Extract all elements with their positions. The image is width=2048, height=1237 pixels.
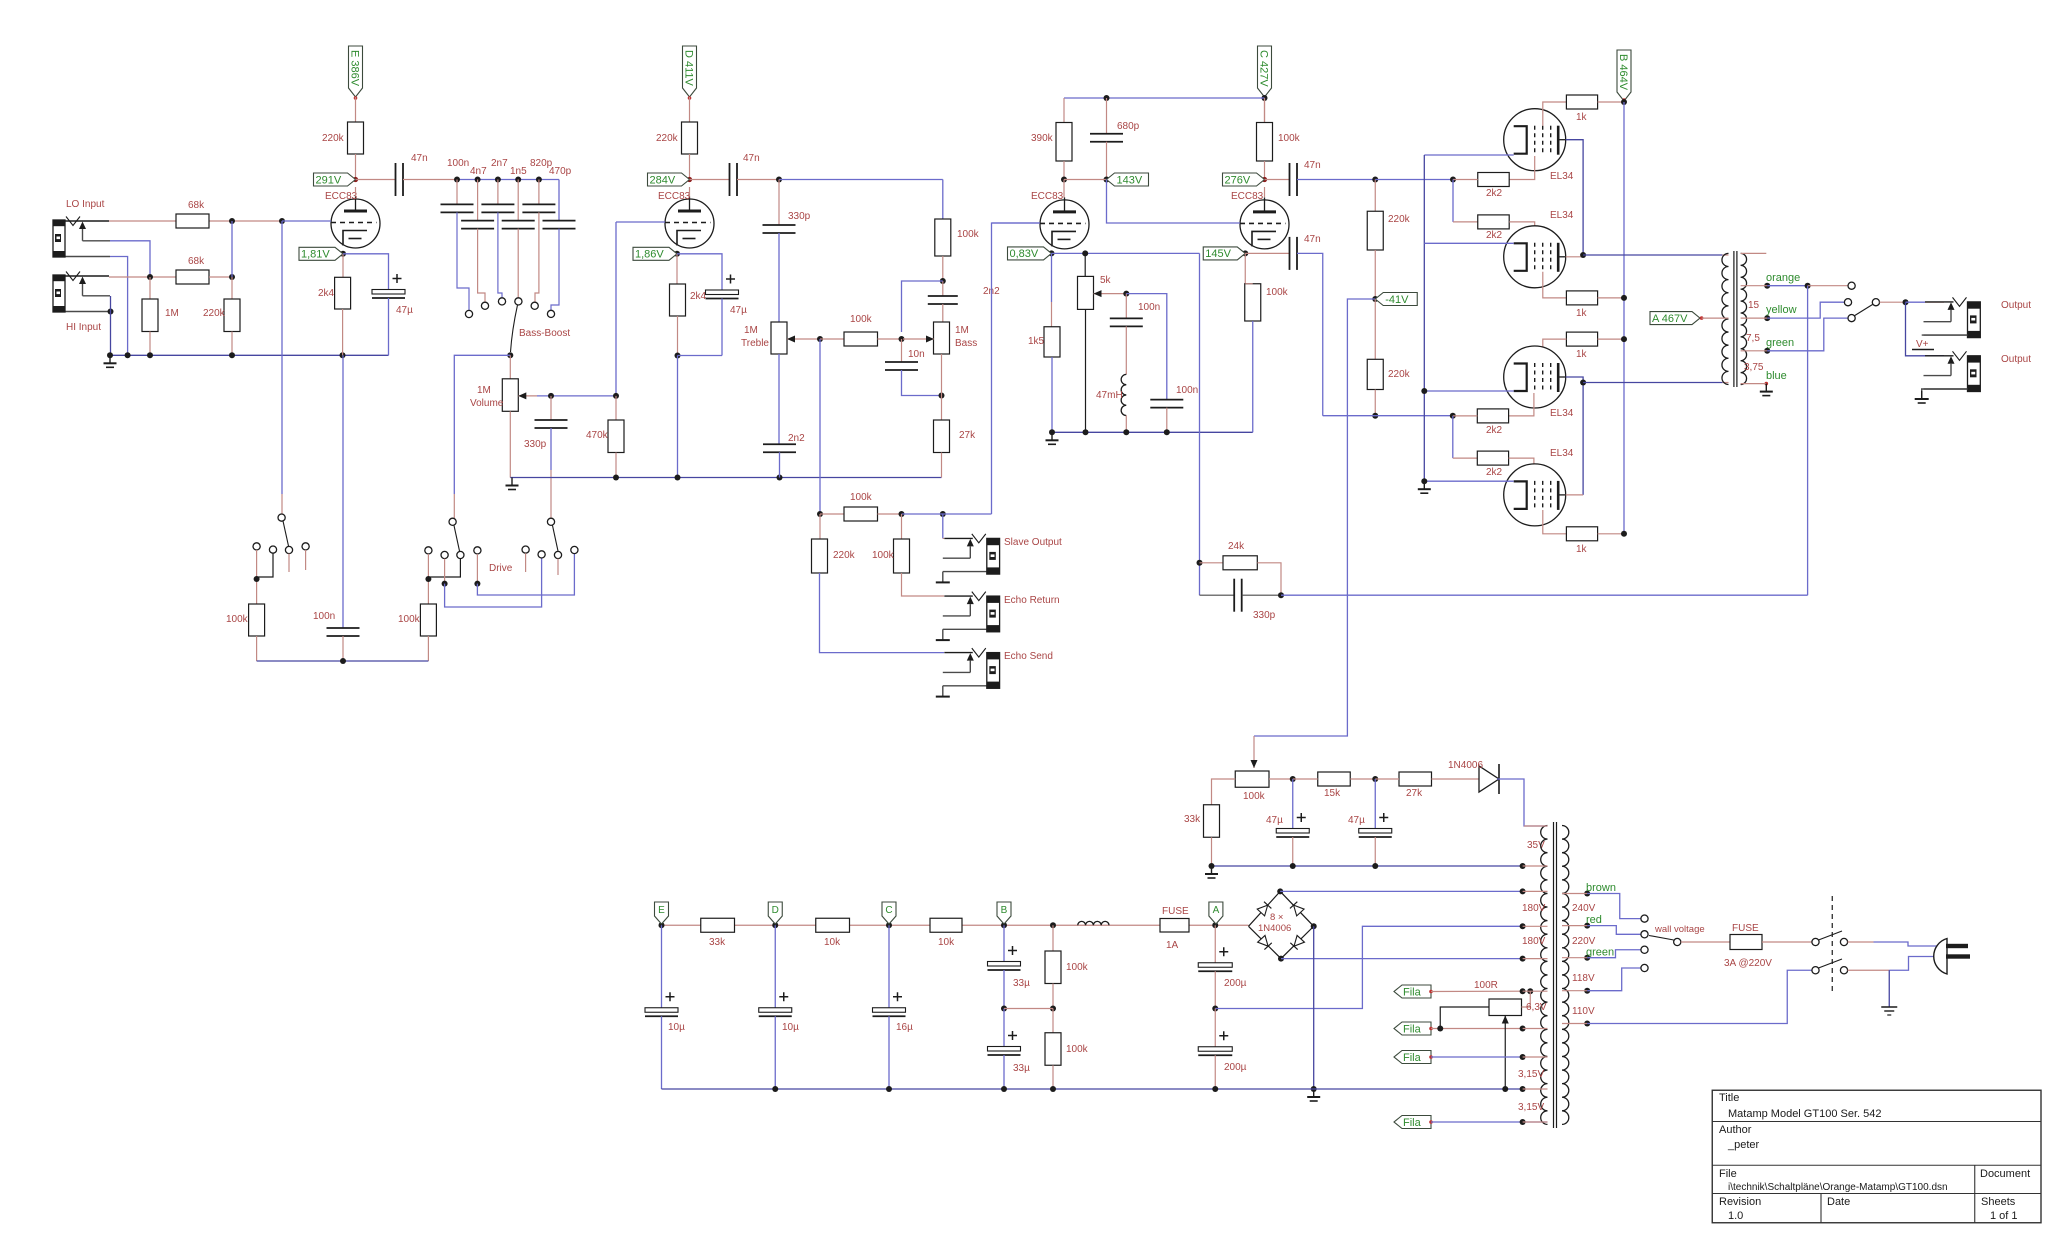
svg-text:68k: 68k [188, 256, 205, 267]
capacitor 330p feedback [1200, 594, 1235, 596]
svg-text:100k: 100k [226, 614, 249, 625]
svg-text:100k: 100k [1243, 791, 1266, 802]
svg-text:2k2: 2k2 [1486, 230, 1503, 241]
switch mains lower [1812, 967, 1819, 974]
svg-text:1n5: 1n5 [510, 166, 527, 177]
flag 143V [1107, 173, 1149, 186]
svg-text:C: C [885, 905, 892, 916]
resistor 33k supply [701, 918, 735, 932]
jack LO Input [65, 220, 109, 222]
svg-text:Document: Document [1980, 1168, 2030, 1180]
svg-text:A 467V: A 467V [1652, 313, 1688, 325]
svg-text:240V: 240V [1572, 903, 1596, 914]
svg-text:Output: Output [2001, 300, 2031, 311]
ground output2 sleeve [1922, 389, 1968, 399]
resistor 100k echo return [901, 514, 903, 539]
svg-text:Date: Date [1827, 1196, 1850, 1208]
flag E 386V [349, 46, 363, 97]
svg-text:33k: 33k [709, 937, 726, 948]
wire bridge plus [1280, 890, 1522, 892]
svg-text:16µ: 16µ [896, 1022, 913, 1033]
tube EL34 no4 [1504, 464, 1566, 526]
svg-text:3,15V: 3,15V [1518, 1069, 1544, 1080]
svg-text:284V: 284V [650, 174, 676, 186]
switch channel-A contacts [278, 514, 285, 521]
svg-text:220k: 220k [322, 133, 345, 144]
capacitor 100n channel [342, 627, 344, 629]
wire bias pot right [1269, 778, 1293, 780]
svg-text:1k: 1k [1576, 544, 1588, 555]
svg-text:15k: 15k [1324, 788, 1341, 799]
capacitor 330p treble top [778, 180, 780, 226]
resistor 2k2 g1 no2 [1478, 215, 1509, 229]
svg-text:24k: 24k [1228, 541, 1245, 552]
capacitor 33u B1 [1003, 925, 1005, 961]
resistor 100k bleeder1 [1050, 922, 1056, 928]
svg-text:68k: 68k [188, 200, 205, 211]
pot 1M Volume [509, 355, 511, 379]
pot 100k bias [1253, 736, 1255, 768]
svg-text:Title: Title [1719, 1092, 1739, 1104]
svg-text:3,15V: 3,15V [1518, 1102, 1544, 1113]
wire bridge minus [1281, 958, 1523, 960]
svg-text:EL34: EL34 [1550, 210, 1574, 221]
cathode EL34 no3 [1424, 390, 1513, 392]
node 1.81V cathode [340, 251, 346, 257]
svg-text:10n: 10n [908, 349, 925, 360]
tube ECC83 stage3 [1040, 200, 1089, 249]
tap green [1764, 348, 1770, 354]
svg-text:Treble: Treble [741, 338, 769, 349]
svg-text:green: green [1766, 337, 1794, 349]
svg-text:1k5: 1k5 [1028, 336, 1045, 347]
tap 118V [1584, 988, 1590, 994]
svg-text:1k: 1k [1576, 349, 1588, 360]
node grid1 junctions [229, 218, 235, 224]
pot 5k presence [1084, 253, 1086, 276]
resistor 10k supply1 [816, 918, 850, 932]
svg-text:B: B [1001, 905, 1008, 916]
svg-text:Echo Send: Echo Send [1004, 651, 1053, 662]
wire grid2 from volume [616, 221, 665, 223]
svg-text:2k4: 2k4 [318, 288, 335, 299]
wires channel-A switch [256, 550, 258, 604]
svg-text:8 ×: 8 × [1270, 912, 1283, 923]
ground rail PI [1052, 431, 1253, 433]
tube EL34 no2 [1504, 226, 1566, 288]
svg-text:green: green [1586, 946, 1614, 958]
node B+ [1621, 99, 1627, 105]
svg-text:100n: 100n [1138, 302, 1160, 313]
svg-text:200µ: 200µ [1224, 1062, 1247, 1073]
svg-text:1N4006: 1N4006 [1258, 923, 1291, 934]
capacitor 100n PI [1125, 294, 1127, 319]
transformer power primary coil [1541, 826, 1548, 1125]
switch impedance contacts [1848, 282, 1855, 289]
wire grid4 from 143V [1107, 180, 1241, 224]
svg-text:ECC83: ECC83 [1231, 191, 1264, 202]
svg-text:blue: blue [1766, 370, 1787, 382]
svg-text:47n: 47n [743, 153, 760, 164]
svg-text:_peter: _peter [1727, 1139, 1760, 1151]
resistor 2k2 g1 no3 [1477, 409, 1508, 423]
resistor 100k mixer2 [820, 513, 844, 515]
ground cathode bus [1423, 481, 1425, 489]
svg-text:Bass-Boost: Bass-Boost [519, 328, 570, 339]
wire 220k to echo send [820, 573, 945, 653]
svg-text:Drive: Drive [489, 563, 513, 574]
jack Output 2 [1925, 355, 1954, 357]
svg-text:EL34: EL34 [1550, 408, 1574, 419]
svg-text:HI Input: HI Input [66, 322, 101, 333]
wire cathode rail down to 100n [342, 355, 344, 628]
svg-text:330p: 330p [1253, 610, 1276, 621]
title block frame [1712, 1090, 2041, 1223]
svg-text:680p: 680p [1117, 121, 1140, 132]
svg-text:100n: 100n [1176, 385, 1198, 396]
svg-text:FUSE: FUSE [1732, 923, 1759, 934]
wire bridge ac2 ground [1313, 926, 1315, 1089]
ground symbol stage1 [109, 355, 111, 363]
svg-text:Bass: Bass [955, 338, 977, 349]
capacitor 470p bank [558, 180, 560, 221]
resistor 1k screen4 [1566, 527, 1597, 541]
choke supply [1078, 921, 1109, 925]
svg-text:1A: 1A [1166, 940, 1179, 951]
svg-text:27k: 27k [959, 430, 976, 441]
screen wire EL34 no1 [1543, 102, 1567, 126]
resistor 15k [1318, 772, 1351, 786]
wire bias pot left [1212, 779, 1236, 805]
svg-text:EL34: EL34 [1550, 448, 1574, 459]
jack Echo Return [944, 595, 973, 597]
svg-text:Author: Author [1719, 1124, 1752, 1136]
wire E386V to 220k [355, 97, 357, 122]
svg-text:47n: 47n [411, 153, 428, 164]
svg-text:E: E [658, 905, 665, 916]
svg-text:V+: V+ [1916, 339, 1929, 350]
tube ECC83 stage2 [665, 199, 714, 248]
svg-text:33µ: 33µ [1013, 1063, 1030, 1074]
grid wire EL34 no2 [1509, 222, 1535, 243]
transformer output primary [1722, 254, 1728, 256]
flag C 427V [1258, 46, 1272, 97]
resistor 1M [149, 277, 151, 299]
wire bass bank bus [457, 179, 559, 181]
svg-text:LO Input: LO Input [66, 199, 105, 210]
resistor 390k [1056, 123, 1072, 162]
svg-text:3A @220V: 3A @220V [1724, 958, 1772, 969]
svg-text:100k: 100k [957, 229, 980, 240]
grid wire EL34 no4 [1509, 458, 1534, 480]
node mixer mid [942, 256, 944, 281]
node -41V [1372, 296, 1378, 302]
wire HI ring/sleeve junction [108, 309, 114, 315]
jack Echo Send [944, 652, 973, 654]
transformer output secondary [1741, 253, 1747, 384]
svg-text:390k: 390k [1031, 133, 1054, 144]
svg-text:118V: 118V [1572, 973, 1595, 984]
resistor 220k anode stage1 [348, 122, 364, 154]
tap blue grounded [1765, 382, 1769, 386]
svg-text:330p: 330p [788, 211, 811, 222]
jack HI Input [65, 275, 109, 277]
svg-text:2k2: 2k2 [1486, 467, 1503, 478]
svg-text:brown: brown [1586, 882, 1616, 894]
capacitor 33u B2 [1003, 1009, 1005, 1047]
flag -41V [1375, 293, 1417, 306]
diode 1N4006 bias [1479, 766, 1499, 792]
wire centre tap [1702, 317, 1729, 319]
node 0,83V [1049, 250, 1055, 256]
svg-text:A: A [1213, 905, 1220, 916]
flag Fila 4 [1394, 1116, 1431, 1129]
svg-text:47µ: 47µ [1348, 815, 1365, 826]
tap green mains [1584, 955, 1590, 961]
switch wall voltage [1641, 915, 1648, 922]
screen wire EL34 no2 [1543, 272, 1567, 298]
svg-text:B 464V: B 464V [1617, 54, 1629, 91]
capacitor 47n upper out [1265, 179, 1290, 181]
ground symbol bias [1211, 866, 1213, 874]
resistor 100k tone [844, 332, 878, 346]
svg-text:33µ: 33µ [1013, 978, 1030, 989]
resistor 68k lower [176, 270, 209, 284]
flag B 464V [1617, 50, 1631, 101]
node 143V [1061, 177, 1067, 183]
node volume top [507, 352, 513, 358]
bus C427V [1264, 96, 1266, 123]
wire impedance wiper out [1880, 301, 1906, 303]
svg-text:1M: 1M [955, 325, 969, 336]
jack Slave Output [944, 537, 973, 539]
capacitor 820p bank [538, 180, 540, 205]
wire cap midpoint to CT [1215, 926, 1522, 1008]
tube EL34 no3 [1504, 346, 1566, 408]
resistor 220k anode stage2 [682, 122, 698, 154]
wire slave tip [942, 514, 944, 538]
wire HI tip to 68k lower [109, 276, 176, 278]
ground rail stage1 [110, 354, 389, 356]
resistor 2k4 stage2 [676, 254, 678, 284]
resistor 100k channelA [249, 604, 265, 636]
node coupling stage2 [776, 177, 782, 183]
resistor 10k supply2 [930, 918, 962, 932]
flag Fila 2 [1394, 1022, 1431, 1035]
svg-text:10µ: 10µ [668, 1022, 685, 1033]
wire LO sleeve to ground rail [110, 257, 128, 356]
wire bassboost node left to drive switch [454, 355, 510, 494]
svg-text:100k: 100k [1066, 1044, 1089, 1055]
capacitor 10u E [661, 925, 663, 1008]
flag Fila 3 [1394, 1051, 1431, 1064]
grid bus lower [1372, 413, 1378, 419]
svg-text:47n: 47n [1304, 160, 1321, 171]
switch mains upper [1812, 938, 1819, 945]
wire LO tip to 68k [109, 220, 176, 222]
svg-text:2k4: 2k4 [690, 291, 707, 302]
pot 1M Bass [934, 322, 950, 354]
svg-text:47µ: 47µ [396, 305, 413, 316]
svg-text:D 411V: D 411V [682, 50, 694, 87]
wire feedback to output [1281, 594, 1808, 596]
flag E [655, 902, 669, 924]
resistor 1k5 [1051, 253, 1053, 302]
node treble wiper [817, 336, 823, 342]
svg-text:220k: 220k [203, 308, 226, 319]
capacitor 680p [1106, 98, 1108, 134]
svg-text:1,81V: 1,81V [301, 249, 330, 261]
flag B [997, 902, 1011, 924]
svg-text:File: File [1719, 1168, 1737, 1180]
tap orange [1764, 283, 1770, 289]
svg-text:5k: 5k [1100, 275, 1112, 286]
capacitor 47n lower out [1245, 252, 1289, 254]
svg-text:100n: 100n [313, 611, 335, 622]
plug mains [1934, 939, 1947, 975]
capacitor 100n bank [456, 180, 458, 205]
svg-text:100k: 100k [850, 314, 873, 325]
svg-text:ECC83: ECC83 [1031, 191, 1064, 202]
resistor 33k bias [1204, 805, 1220, 838]
flag 1,86V [674, 251, 680, 257]
inductor 47mH [1121, 374, 1126, 415]
jack Output 1 [1925, 301, 1954, 303]
svg-text:Revision: Revision [1719, 1196, 1761, 1208]
rail channel switch [257, 660, 429, 662]
svg-text:47µ: 47µ [730, 305, 747, 316]
tap 35V top [1524, 825, 1548, 827]
svg-text:1M: 1M [165, 308, 179, 319]
svg-text:47n: 47n [1304, 234, 1321, 245]
cathode bus upper [1424, 154, 1513, 156]
capacitor 1n5 bank [517, 180, 519, 221]
flag 284V [648, 173, 690, 186]
wire LO ring to HI row [110, 241, 150, 277]
svg-text:Fila: Fila [1403, 986, 1422, 998]
wire mains live [1848, 941, 1874, 943]
resistor 100k cathode4 [1244, 253, 1246, 283]
svg-text:Fila: Fila [1403, 1052, 1422, 1064]
rail HT B [662, 924, 1249, 926]
svg-text:220V: 220V [1572, 936, 1596, 947]
resistor 470k [615, 396, 617, 420]
switch Drive contacts [449, 518, 456, 525]
svg-text:1k: 1k [1576, 112, 1588, 123]
wire output2 tip [1906, 302, 1945, 356]
wire to 100k mixer [779, 179, 943, 181]
node 276V [1262, 177, 1267, 182]
svg-text:100k: 100k [398, 614, 421, 625]
svg-text:Volume: Volume [470, 398, 504, 409]
fix cathode4 jog [1245, 283, 1253, 285]
transformer output core [1733, 251, 1735, 387]
fuse mains [1681, 941, 1730, 943]
capacitor 2n7 bank [497, 180, 499, 205]
capacitor 47n stage1 [356, 179, 396, 181]
svg-text:red: red [1586, 914, 1602, 926]
grid wire EL34 no3 [1509, 393, 1534, 416]
svg-text:6,3V: 6,3V [1526, 1002, 1547, 1013]
anode EL34 no1 [1566, 140, 1583, 255]
transformer power secondary coil [1562, 826, 1569, 1125]
wire 2k2 pair upper [1452, 180, 1454, 222]
capacitor 47u stage1 [343, 254, 389, 290]
resistor 2k2 g1 no4 [1477, 451, 1508, 465]
svg-text:10µ: 10µ [782, 1022, 799, 1033]
capacitor 47u stage2 [677, 254, 722, 290]
tube ECC83 stage4 [1240, 200, 1289, 249]
wire PI grid feed [992, 223, 1041, 514]
svg-text:100R: 100R [1474, 980, 1498, 991]
svg-text:wall voltage: wall voltage [1654, 924, 1705, 935]
resistor 24k [1200, 562, 1224, 564]
svg-text:180V: 180V [1522, 936, 1546, 947]
node 284V [687, 177, 692, 182]
wire cathode3 bus [1052, 252, 1200, 254]
svg-text:220k: 220k [833, 550, 856, 561]
feedback 24k junction [1199, 253, 1201, 595]
svg-text:4n7: 4n7 [470, 166, 487, 177]
svg-text:15: 15 [1748, 300, 1760, 311]
flag 291V [314, 173, 356, 186]
resistor 2k2 g1 no1 [1478, 173, 1509, 187]
svg-text:Slave Output: Slave Output [1004, 537, 1062, 548]
capacitor 200u 2 [1214, 1009, 1216, 1047]
svg-text:Sheets: Sheets [1981, 1196, 2016, 1208]
resistor 68k upper [209, 220, 282, 222]
svg-text:100k: 100k [1066, 962, 1089, 973]
svg-text:Fila: Fila [1403, 1117, 1422, 1129]
wires Drive2 stubs [525, 553, 527, 572]
capacitor 47u bias2 [1374, 779, 1376, 829]
svg-text:33k: 33k [1184, 814, 1201, 825]
svg-text:276V: 276V [1225, 174, 1251, 186]
secondary top stub [1741, 252, 1767, 254]
svg-text:180V: 180V [1522, 903, 1546, 914]
svg-text:330p: 330p [524, 439, 547, 450]
svg-text:ECC83: ECC83 [658, 191, 691, 202]
cathode EL34 no2 [1424, 242, 1513, 244]
tap yellow [1764, 315, 1770, 321]
svg-text:Matamp Model GT100 Ser. 542: Matamp Model GT100 Ser. 542 [1728, 1108, 1881, 1120]
resistor 27k bias [1399, 772, 1432, 786]
wire volume wiper to 470k node [537, 395, 616, 397]
svg-text:1M: 1M [477, 385, 491, 396]
svg-text:1 of 1: 1 of 1 [1990, 1210, 2018, 1222]
svg-text:0,83V: 0,83V [1010, 248, 1039, 260]
wire grid3 [992, 222, 1040, 224]
rail HT ground [662, 1088, 1523, 1090]
capacitor 16u C [888, 925, 890, 1008]
tap brown [1584, 891, 1590, 897]
svg-text:EL34: EL34 [1550, 171, 1574, 182]
screen wire EL34 no4 [1543, 510, 1567, 534]
capacitor 47u bias1 [1292, 779, 1294, 829]
flag 145V [1203, 247, 1245, 260]
svg-text:100k: 100k [872, 550, 895, 561]
node bass bottom [939, 393, 945, 399]
svg-text:27k: 27k [1406, 788, 1423, 799]
svg-text:47µ: 47µ [1266, 815, 1283, 826]
wire 68k lower up to grid line [231, 221, 233, 277]
svg-text:291V: 291V [316, 174, 342, 186]
capacitor 10u D [774, 925, 776, 1008]
svg-text:Output: Output [2001, 354, 2031, 365]
svg-text:2n7: 2n7 [491, 158, 508, 169]
resistor 220k slave [819, 514, 821, 539]
switch Drive2 contacts [547, 518, 554, 525]
